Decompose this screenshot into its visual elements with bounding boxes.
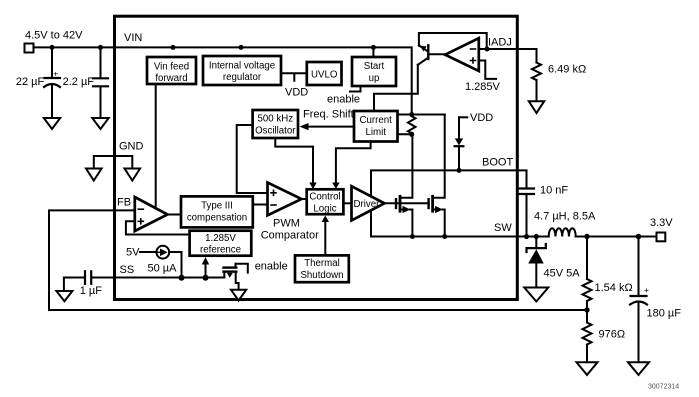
resistor current sense [398, 115, 445, 135]
svg-text:1.285V: 1.285V [205, 233, 236, 244]
svg-text:+: + [53, 69, 58, 79]
op-amp PWM comparator [268, 183, 302, 216]
svg-text:4.5V to 42V: 4.5V to 42V [25, 29, 83, 41]
svg-text:Limit: Limit [365, 127, 386, 138]
svg-text:1.54 kΩ: 1.54 kΩ [595, 282, 633, 294]
resistor 1.54k [583, 237, 592, 311]
block thermal shutdown [295, 255, 349, 282]
svg-text:reference: reference [200, 244, 241, 255]
current source 50uA [140, 246, 182, 278]
svg-text:Comparator: Comparator [261, 230, 319, 242]
wire enable stub [350, 86, 361, 92]
IC boundary box [115, 16, 518, 299]
transistor M2 NMOS [429, 115, 445, 237]
node SS/reference [203, 275, 209, 281]
ground [231, 290, 246, 301]
ground [44, 118, 60, 129]
node divider mid [584, 307, 589, 312]
svg-text:BOOT: BOOT [482, 157, 513, 169]
wire FB amp output [168, 214, 182, 216]
wire collector to current limit [374, 65, 418, 111]
transistor M1 NMOS [396, 134, 412, 236]
wire VIN rail [34, 47, 412, 115]
svg-text:FB: FB [117, 197, 131, 209]
wire gate drive [384, 202, 428, 204]
transistor Q1 NPN [418, 45, 445, 65]
capacitor 180uF [630, 237, 647, 362]
arrowhead left [300, 123, 309, 130]
wire output rail [576, 236, 656, 238]
svg-text:regulator: regulator [223, 72, 262, 83]
svg-text:+: + [644, 285, 649, 295]
wire oscillator to control logic [275, 138, 313, 184]
svg-text:4.7 µH, 8.5A: 4.7 µH, 8.5A [534, 211, 596, 223]
svg-text:PWM: PWM [273, 218, 300, 230]
block Vin feed forward [147, 57, 196, 84]
wire VIN to start up [372, 47, 374, 57]
node SW/M1 [410, 234, 415, 239]
svg-text:VIN: VIN [124, 32, 142, 44]
arrowhead up into reference [202, 257, 209, 265]
block Start up [352, 57, 396, 86]
svg-text:22 µF: 22 µF [16, 76, 45, 88]
svg-text:enable: enable [327, 94, 360, 106]
op-amp current limit amplifier [445, 38, 479, 71]
wire PWM output [302, 198, 307, 200]
svg-text:enable: enable [255, 261, 288, 273]
diode catch 45V 5A [527, 237, 546, 288]
capacitor C3 1uF [85, 271, 91, 284]
wire control logic to driver [343, 202, 351, 204]
svg-text:Vin feed: Vin feed [154, 62, 189, 73]
block Type III compensation [181, 196, 253, 227]
ground [125, 169, 141, 181]
op-amp FB error amplifier [135, 197, 168, 231]
svg-text:Freq. Shift: Freq. Shift [303, 109, 354, 121]
svg-text:forward: forward [155, 73, 187, 84]
arrowhead down [332, 183, 339, 190]
wire reference to SS [205, 261, 207, 278]
svg-text:45V 5A: 45V 5A [544, 267, 581, 279]
wire FB amp plus input to reference [126, 221, 190, 234]
node sense top [409, 112, 414, 117]
node IADJ [485, 47, 490, 52]
svg-text:UVLO: UVLO [311, 70, 338, 81]
diode VDD to BOOT [455, 117, 468, 170]
node VIN/regulator [239, 45, 244, 50]
ground [86, 169, 102, 181]
arrowhead down [309, 183, 316, 190]
wire oscillator to PWM comparator [237, 125, 268, 193]
wire current limit to control logic [336, 142, 371, 185]
svg-text:Oscillator: Oscillator [255, 126, 296, 137]
svg-text:Control: Control [309, 192, 340, 203]
svg-text:up: up [369, 73, 380, 84]
svg-text:180 µF: 180 µF [647, 308, 682, 320]
driver stage box [371, 170, 517, 236]
block 1.285V reference [190, 231, 252, 256]
wire regulator to UVLO / VDD tick [281, 73, 307, 81]
svg-text:VDD: VDD [285, 87, 308, 99]
output port 3.3V [657, 233, 666, 242]
svg-text:Driver: Driver [354, 199, 381, 210]
wire SS rail [64, 277, 84, 279]
input port 4.5V to 42V [25, 44, 34, 53]
wire compensation to PWM comparator [253, 204, 268, 206]
node VIN/C2 [98, 45, 103, 50]
node VIN/C1 [50, 45, 55, 50]
wire thermal shutdown to control logic [324, 221, 326, 255]
svg-text:Start: Start [364, 61, 385, 72]
node out/cap [636, 234, 642, 240]
wire freq shift arrow [308, 126, 354, 128]
block current limit [354, 111, 398, 142]
svg-text:Thermal: Thermal [304, 258, 340, 269]
svg-text:GND: GND [119, 141, 144, 153]
wire SS rail inner [92, 277, 224, 279]
capacitor 10nF boot [517, 170, 534, 236]
capacitor C2 2.2uF [93, 47, 108, 117]
svg-text:Current: Current [360, 115, 393, 126]
svg-text:3.3V: 3.3V [650, 217, 673, 229]
svg-text:30072314: 30072314 [648, 384, 679, 391]
node SW/M2 [442, 234, 447, 239]
svg-text:500 kHz: 500 kHz [258, 114, 294, 125]
svg-text:IADJ: IADJ [488, 37, 512, 49]
wire enable hook [236, 264, 248, 273]
svg-text:Shutdown: Shutdown [300, 270, 343, 281]
resistor 976 ohm [583, 310, 592, 362]
svg-text:50 µA: 50 µA [148, 263, 178, 275]
node BOOT/diode [457, 168, 462, 173]
ground [56, 291, 72, 301]
svg-text:Logic: Logic [313, 203, 336, 214]
resistor 6.49k [517, 49, 541, 101]
arrowhead up [322, 216, 329, 223]
svg-text:SS: SS [120, 264, 135, 276]
ground [524, 288, 548, 302]
svg-text:Type III: Type III [201, 201, 233, 212]
wire minus input to IADJ pin [479, 48, 517, 50]
capacitor C1 22uF [44, 47, 60, 117]
node VIN/feedforward [171, 45, 176, 50]
svg-text:6.49 kΩ: 6.49 kΩ [548, 64, 586, 76]
wire emitter to IADJ node [419, 33, 487, 49]
svg-text:1.285V: 1.285V [465, 81, 501, 93]
node out/divider [584, 234, 589, 239]
wire FB feedback loop [49, 210, 587, 310]
svg-text:10 nF: 10 nF [540, 185, 568, 197]
node SW/bootcap [524, 234, 529, 239]
svg-text:SW: SW [494, 222, 512, 234]
svg-text:2.2 µF: 2.2 µF [63, 76, 95, 88]
ground [529, 101, 544, 113]
ground [577, 362, 598, 375]
ground [628, 362, 649, 375]
node SW/diode [534, 234, 539, 239]
svg-text:976Ω: 976Ω [599, 329, 626, 341]
node VIN/startup [371, 45, 376, 50]
wire Vin feed forward to FB amp [155, 84, 157, 208]
wire plus input 1.285V stub [479, 61, 496, 79]
node sense bottom [409, 132, 414, 137]
wire GND pin [94, 156, 133, 168]
buffer driver [352, 186, 385, 220]
inductor 4.7uH [549, 228, 576, 236]
ground [92, 118, 108, 129]
svg-text:VDD: VDD [470, 112, 493, 124]
svg-text:compensation: compensation [187, 213, 247, 224]
wire SW out [517, 236, 549, 238]
svg-text:5V: 5V [126, 247, 140, 259]
block 500kHz oscillator [253, 110, 298, 138]
svg-text:Internal voltage: Internal voltage [209, 61, 275, 72]
block internal voltage regulator [203, 56, 281, 85]
svg-text:1 µF: 1 µF [80, 285, 103, 297]
block UVLO [307, 62, 342, 85]
wire [63, 278, 65, 291]
block control logic [307, 189, 344, 214]
transistor Q2 enable NMOS [224, 264, 239, 290]
node SS/source [179, 275, 185, 281]
